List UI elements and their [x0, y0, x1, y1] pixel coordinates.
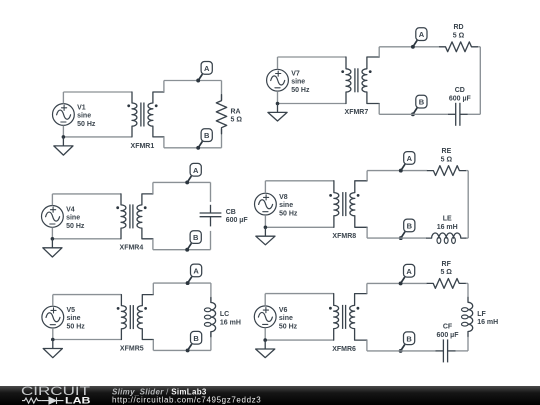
inductor LF [462, 297, 473, 336]
svg-text:16 mH: 16 mH [220, 319, 241, 326]
svg-text:5 Ω: 5 Ω [440, 269, 452, 276]
wire V4 top [52, 194, 121, 206]
wire secondary top (XFMR6) [401, 282, 468, 284]
ground (V1 circuit) [54, 137, 73, 155]
ground (V4 circuit) [43, 239, 62, 257]
junction V6 ground node [263, 338, 267, 342]
wire XFMR7 secondary left bottom [379, 104, 413, 115]
footer bar [0, 386, 540, 405]
svg-text:V7: V7 [291, 70, 300, 77]
svg-text:50 Hz: 50 Hz [67, 324, 86, 331]
svg-text:50 Hz: 50 Hz [279, 211, 298, 218]
CircuitLab logo schematic: diode [41, 397, 63, 404]
resistor RF [427, 279, 465, 289]
footer title Slimy_Slider / SimLab3 [112, 387, 207, 396]
svg-text:LF: LF [477, 311, 486, 318]
svg-text:5 Ω: 5 Ω [441, 156, 453, 163]
svg-text:A: A [193, 267, 199, 276]
svg-text:http://circuitlab.com/c7495gz7: http://circuitlab.com/c7495gz7eddz3 [112, 396, 261, 405]
label XFMR4 [120, 245, 144, 252]
svg-text:B: B [406, 334, 412, 343]
wire secondary bottom (XFMR8) [401, 237, 468, 239]
wire XFMR8 secondary left top [367, 171, 401, 181]
svg-text:sine: sine [66, 215, 80, 222]
svg-text:XFMR8: XFMR8 [332, 233, 356, 240]
wire XFMR6 secondary left top [367, 283, 401, 293]
wire V6 bottom [265, 328, 334, 340]
wire XFMR7 secondary left top [379, 47, 413, 57]
wire XFMR5 secondary left top [153, 283, 187, 295]
transformer XFMR7 [341, 57, 379, 104]
label RA 5 &#937; [231, 109, 243, 124]
CircuitLab logo wordmark LAB [65, 396, 91, 405]
voltage source V5 [42, 306, 64, 328]
svg-text:16 mH: 16 mH [477, 319, 498, 326]
inductor LE [427, 233, 466, 243]
svg-text:XFMR5: XFMR5 [120, 345, 144, 352]
CircuitLab logo wordmark CIRCUIT [21, 385, 90, 398]
node B flag (V8 circuit) [399, 219, 415, 240]
wire secondary top (XFMR5) [188, 282, 211, 284]
capacitor CB [200, 205, 222, 227]
resistor RE [427, 166, 465, 176]
wire XFMR5 secondary left bottom [153, 340, 187, 351]
transformer XFMR6 [329, 294, 367, 341]
label V7 sine 50 Hz [291, 70, 310, 94]
svg-text:RD: RD [453, 24, 463, 31]
svg-text:XFMR4: XFMR4 [120, 245, 144, 252]
node A flag (V7 circuit) [411, 28, 427, 49]
svg-text:B: B [193, 233, 199, 242]
svg-text:XFMR7: XFMR7 [345, 109, 369, 116]
wire secondary right (XFMR5) [210, 283, 212, 350]
wire secondary bottom (XFMR7) [413, 113, 480, 115]
resistor RD [440, 42, 478, 52]
label V6 sine 50 Hz [279, 307, 298, 330]
inductor LC [204, 298, 215, 337]
wire V1 top [63, 92, 132, 104]
ground (V5 circuit) [43, 340, 62, 358]
wire secondary bottom (XFMR1) [198, 147, 221, 149]
junction V4 ground node [51, 237, 55, 241]
wire secondary top (XFMR8) [401, 170, 468, 172]
svg-text:CB: CB [226, 209, 236, 216]
svg-text:A: A [406, 267, 412, 276]
label XFMR6 [332, 346, 356, 353]
node B flag (V4 circuit) [185, 231, 201, 252]
wire secondary right (XFMR4) [210, 182, 212, 249]
wire XFMR1 secondary left bottom [164, 137, 198, 148]
capacitor CD [448, 103, 468, 126]
voltage source V6 [254, 306, 276, 328]
svg-text:CD: CD [455, 87, 465, 94]
wire XFMR8 secondary left bottom [367, 227, 401, 238]
transformer XFMR4 [116, 194, 153, 239]
label RF 5 &#937; [440, 261, 452, 276]
node B flag (V1 circuit) [196, 129, 212, 150]
node A flag (V5 circuit) [186, 264, 202, 285]
ground (V6 circuit) [256, 340, 275, 358]
wire secondary top (XFMR4) [187, 181, 210, 183]
svg-text:50 Hz: 50 Hz [66, 223, 85, 230]
voltage source V1 [53, 104, 75, 126]
wire V1 bottom [63, 126, 132, 137]
wire XFMR6 secondary left bottom [367, 340, 401, 351]
wire V8 top [265, 181, 334, 193]
voltage source V8 [255, 193, 277, 215]
wire secondary right (XFMR7) [479, 47, 481, 115]
svg-text:600 µF: 600 µF [226, 217, 249, 224]
svg-text:XFMR1: XFMR1 [131, 143, 155, 150]
svg-text:A: A [419, 30, 425, 39]
junction V7 ground node [276, 102, 280, 106]
svg-text:50 Hz: 50 Hz [279, 323, 298, 330]
label XFMR7 [345, 109, 369, 116]
transformer XFMR8 [329, 181, 367, 228]
svg-text:LAB: LAB [65, 396, 91, 405]
label CD 600 &#181;F [449, 87, 472, 102]
label LE 16 mH [437, 216, 458, 231]
wire XFMR4 secondary left bottom [153, 239, 187, 250]
label XFMR8 [332, 233, 356, 240]
svg-text:A: A [204, 64, 210, 73]
node B flag (V5 circuit) [186, 331, 202, 352]
node B flag (V6 circuit) [399, 332, 415, 353]
svg-text:CF: CF [443, 324, 453, 331]
transformer XFMR1 [127, 92, 164, 137]
svg-text:sine: sine [279, 202, 293, 209]
svg-text:V6: V6 [279, 307, 288, 314]
svg-text:B: B [193, 334, 199, 343]
junction V5 ground node [51, 338, 55, 342]
svg-text:LE: LE [443, 216, 452, 223]
label V8 sine 50 Hz [279, 194, 298, 217]
node B flag (V7 circuit) [411, 95, 427, 116]
wire secondary right (XFMR8) [467, 171, 469, 239]
CircuitLab logo schematic: resistor zigzag [22, 398, 41, 403]
wire V7 bottom [278, 91, 347, 103]
wire secondary right (XFMR1) [221, 81, 223, 148]
svg-text:sine: sine [67, 315, 81, 322]
junction V1 ground node [62, 135, 66, 139]
svg-text:A: A [407, 154, 413, 163]
svg-text:600 µF: 600 µF [449, 95, 472, 102]
label CF 600 &#181;F [437, 324, 460, 339]
label XFMR5 [120, 345, 144, 352]
label RE 5 &#937; [441, 148, 453, 163]
svg-text:RE: RE [442, 148, 452, 155]
wire secondary bottom (XFMR5) [188, 349, 211, 351]
svg-text:sine: sine [77, 113, 91, 120]
footer url [112, 396, 261, 405]
wire V6 top [265, 294, 334, 306]
node A flag (V6 circuit) [399, 264, 415, 285]
label CB 600 &#181;F [226, 209, 249, 224]
svg-text:A: A [193, 166, 199, 175]
label LC 16 mH [220, 311, 241, 326]
voltage source V4 [42, 206, 64, 228]
label XFMR1 [131, 143, 155, 150]
wire V4 bottom [52, 227, 121, 238]
svg-text:RF: RF [442, 261, 452, 268]
label V1 sine 50 Hz [77, 105, 96, 129]
svg-text:V5: V5 [67, 307, 76, 314]
svg-text:600 µF: 600 µF [437, 332, 460, 339]
node A flag (V1 circuit) [196, 62, 212, 83]
wire XFMR1 secondary left top [164, 81, 198, 93]
junction V8 ground node [264, 226, 268, 230]
svg-text:B: B [204, 131, 210, 140]
wire secondary right (XFMR6) [467, 283, 469, 351]
resistor RA [216, 95, 226, 134]
wire secondary bottom (XFMR6) [401, 350, 468, 352]
voltage source V7 [267, 69, 289, 91]
svg-text:5 Ω: 5 Ω [453, 33, 465, 40]
capacitor CF [436, 339, 456, 362]
node A flag (V4 circuit) [185, 163, 201, 184]
wire V5 bottom [53, 328, 122, 339]
svg-text:B: B [407, 222, 413, 231]
svg-text:5 Ω: 5 Ω [231, 117, 243, 124]
wire V5 top [53, 295, 122, 307]
wire V8 bottom [265, 215, 334, 227]
label V4 sine 50 Hz [66, 207, 85, 230]
svg-text:V8: V8 [279, 194, 288, 201]
svg-text:V1: V1 [77, 105, 86, 112]
ground (V8 circuit) [256, 227, 275, 245]
transformer XFMR5 [117, 295, 154, 340]
label LF 16 mH [477, 311, 498, 326]
svg-text:16 mH: 16 mH [437, 224, 458, 231]
svg-text:XFMR6: XFMR6 [332, 346, 356, 353]
label RD 5 &#937; [453, 24, 465, 39]
svg-text:LC: LC [220, 311, 229, 318]
wire XFMR4 secondary left top [153, 182, 187, 194]
svg-text:V4: V4 [66, 207, 75, 214]
wire secondary bottom (XFMR4) [187, 249, 210, 251]
svg-text:50 Hz: 50 Hz [291, 87, 310, 94]
svg-text:sine: sine [279, 315, 293, 322]
ground (V7 circuit) [268, 104, 287, 122]
wire V7 top [278, 57, 347, 69]
wire secondary top (XFMR7) [413, 46, 480, 48]
node A flag (V8 circuit) [399, 152, 415, 173]
svg-text:sine: sine [291, 79, 305, 86]
label V5 sine 50 Hz [67, 307, 86, 330]
svg-text:B: B [419, 98, 425, 107]
svg-text:50 Hz: 50 Hz [77, 121, 96, 128]
svg-text:RA: RA [231, 109, 241, 116]
wire secondary top (XFMR1) [198, 80, 221, 82]
